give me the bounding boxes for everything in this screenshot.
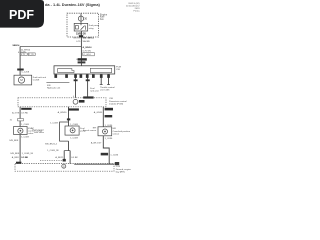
wire colour labels on relay wire [73,36,94,52]
PCM pin 4 label blob [80,74,83,78]
wire: splice branch to ground point [63,151,65,161]
wire: PCM pin to tank sender (left) [75,74,77,98]
engine fuse box name label [100,14,108,20]
vapour valve name label right [80,128,86,133]
svg-text:Knock sensor: Knock sensor [83,129,97,132]
inline connector label boxes on tank feed wire [20,53,35,56]
svg-text:A_WH30: A_WH30 [58,111,68,114]
svg-text:A_GN35: A_GN35 [94,111,103,114]
wire label blob on sensor ground wire [101,153,108,156]
svg-text:module (PCM): module (PCM) [109,103,123,105]
svg-text:1_C036: 1_C036 [105,138,113,140]
wire: splice branch to ground box [69,151,71,164]
PCM pin 2 label blob [65,74,68,78]
splice label blob [79,100,85,103]
PCM pin 8 label blob [107,74,110,78]
EVAP canister purge valve [14,127,28,135]
svg-text:A_BK 15/7: A_BK 15/7 [91,142,102,145]
svg-text:WH/RD: WH/RD [83,41,91,43]
bracket name label [47,85,61,90]
wire: sensor to ground box (jog) [103,136,109,164]
fuel tank unit name label [33,76,47,82]
svg-text:1_C009_98: 1_C009_98 [47,150,59,152]
PCM pin 3 label blob [74,74,77,78]
svg-text:0.5 RD: 0.5 RD [21,113,28,115]
svg-text:SBB14: SBB14 [12,44,20,47]
connector bracket under PCM left pins [46,81,69,83]
svg-text:C_WH14: C_WH14 [83,47,93,49]
svg-text:S/B_BK8: S/B_BK8 [9,140,19,142]
svg-text:C1208: C1208 [33,79,40,81]
PCM pin 1 label blob [54,74,57,78]
in-tank harness enclosure (dashed) [18,98,106,107]
PCM pin 5 label blob [86,74,89,78]
svg-text:A_GY8: A_GY8 [12,112,20,115]
svg-text:vent valve: vent valve [34,131,45,134]
wire label blob on vapour valve wire [68,108,79,110]
svg-text:tank unit: tank unit [90,89,99,92]
svg-text:C_1208: C_1208 [21,72,29,74]
svg-text:da - 1.4L Duratec-16V (Sigma): da - 1.4L Duratec-16V (Sigma) [45,2,101,7]
PCM module U1 (powertrain control module) [54,66,115,74]
svg-text:S/B_WH14: S/B_WH14 [83,36,95,39]
wire: dashed branch line [40,159,64,161]
svg-text:A_BK8: A_BK8 [12,156,20,159]
inline connector label box on EVAP wire [10,119,24,122]
ground bus solid segment [74,163,114,165]
camshaft position sensor B1 [98,127,112,136]
svg-text:BK/OG: BK/OG [73,37,80,39]
wire label blob on EVAP wire [21,108,31,110]
wire colour labels on EVAP ground wire [10,153,33,159]
svg-text:1_C009: 1_C009 [50,123,58,125]
svg-text:Powertrain control: Powertrain control [109,100,127,103]
second label blob on sensor wire [105,115,113,117]
svg-text:1_C036: 1_C036 [110,155,118,157]
sheet header info block (top right) [126,3,140,12]
wire colour label blobs on sender wires [74,79,78,81]
junction blob at ground branch [63,159,66,162]
junction label at fuse box exit [79,35,83,37]
svg-text:Fuel tank unit: Fuel tank unit [33,76,47,79]
svg-text:unit C135: unit C135 [100,88,110,91]
svg-text:Ground, engine: Ground, engine [116,168,132,171]
fuel pump relay K1 [74,21,88,31]
PDF badge overlay [0,0,44,28]
wire: splice split bar [64,150,70,152]
svg-text:1_C009: 1_C009 [70,124,78,126]
svg-text:G: G [63,165,65,168]
svg-text:bay (RH): bay (RH) [116,171,125,173]
fuel pump relay name label [89,25,100,30]
wire: rail down to fuel tank unit [19,47,21,76]
svg-text:S/B_BK21-2: S/B_BK21-2 [45,143,58,145]
wire: relay output down to PCM pin [80,31,82,66]
svg-text:1_C009: 1_C009 [70,137,78,139]
PCM pin 7 label blob [100,74,103,78]
harness label above [83,96,93,98]
wire: PCM pin to throttle control (right) [107,74,110,85]
wire: power rail to fuel pump feed [20,46,81,48]
svg-text:Camshaft position: Camshaft position [113,130,131,133]
junction blob on vapour valve wire [67,118,70,120]
inline connector label box on relay wire [83,53,95,57]
sensor name label left [83,127,97,132]
EVAP valve name label [28,127,43,135]
harness name label C90 PCM [109,98,127,105]
tank sender wires name label [90,88,99,92]
PCM pin 6 label blob [92,74,95,78]
wire: vapour valve to splice [68,141,70,151]
ground point G14 [62,164,66,168]
PCM name label C90 [116,67,121,71]
wire: EVAP valve to ground box [19,135,21,164]
wire: PCM pin to throttle control (left) [100,74,103,85]
wire: PCM pin to tank sender (right) [87,74,89,98]
svg-text:0.5 BK: 0.5 BK [71,157,78,159]
fuse F30 [78,13,83,21]
ground distribution enclosure (dashed) [15,164,114,172]
label blob at ground box right corner [115,162,119,165]
connector label C1208 above tank unit [17,69,24,71]
svg-text:A_BK21: A_BK21 [55,156,64,159]
svg-text:1_C009: 1_C009 [21,137,29,139]
svg-text:Fuel vapour: Fuel vapour [32,129,44,132]
wire: harness to fuel vapour valve [68,107,70,126]
svg-text:Fiesta: Fiesta [134,9,141,12]
splice S102 [73,99,78,104]
svg-text:C_G14: C_G14 [84,54,92,56]
svg-text:Hydraulic unit: Hydraulic unit [47,86,61,89]
svg-text:sensor: sensor [113,132,120,135]
wire colour labels on tank feed wire [18,48,31,53]
svg-text:1_C009_96: 1_C009_96 [22,153,34,155]
engine fuse box enclosure (dashed) [67,13,99,37]
sensor name label right [113,128,131,135]
svg-text:1_C009: 1_C009 [21,124,29,126]
dark connector labels above PCM pin [78,58,87,60]
wire: harness to EVAP valve [19,107,21,127]
wire label blob on sensor wire [105,108,113,111]
ground name label G14 [116,166,132,173]
wire: harness to camshaft sensor [102,107,104,127]
wire: bypass loop around vapour valve [60,122,69,141]
svg-text:0.5 BK: 0.5 BK [21,157,28,159]
svg-text:PDF: PDF [9,8,34,22]
svg-text:0.75 GN: 0.75 GN [83,50,92,52]
fuel tank unit (fuel pump M1) [14,75,32,85]
vapour valve name label left [32,129,44,135]
wire colour labels A_GY8 0.5 RD [12,112,28,115]
fuel vapour vent valve [65,126,79,135]
label blob on ground box left corner [16,162,21,164]
throttle control unit name label [100,86,115,91]
svg-text:S/B_BK8: S/B_BK8 [10,153,20,155]
